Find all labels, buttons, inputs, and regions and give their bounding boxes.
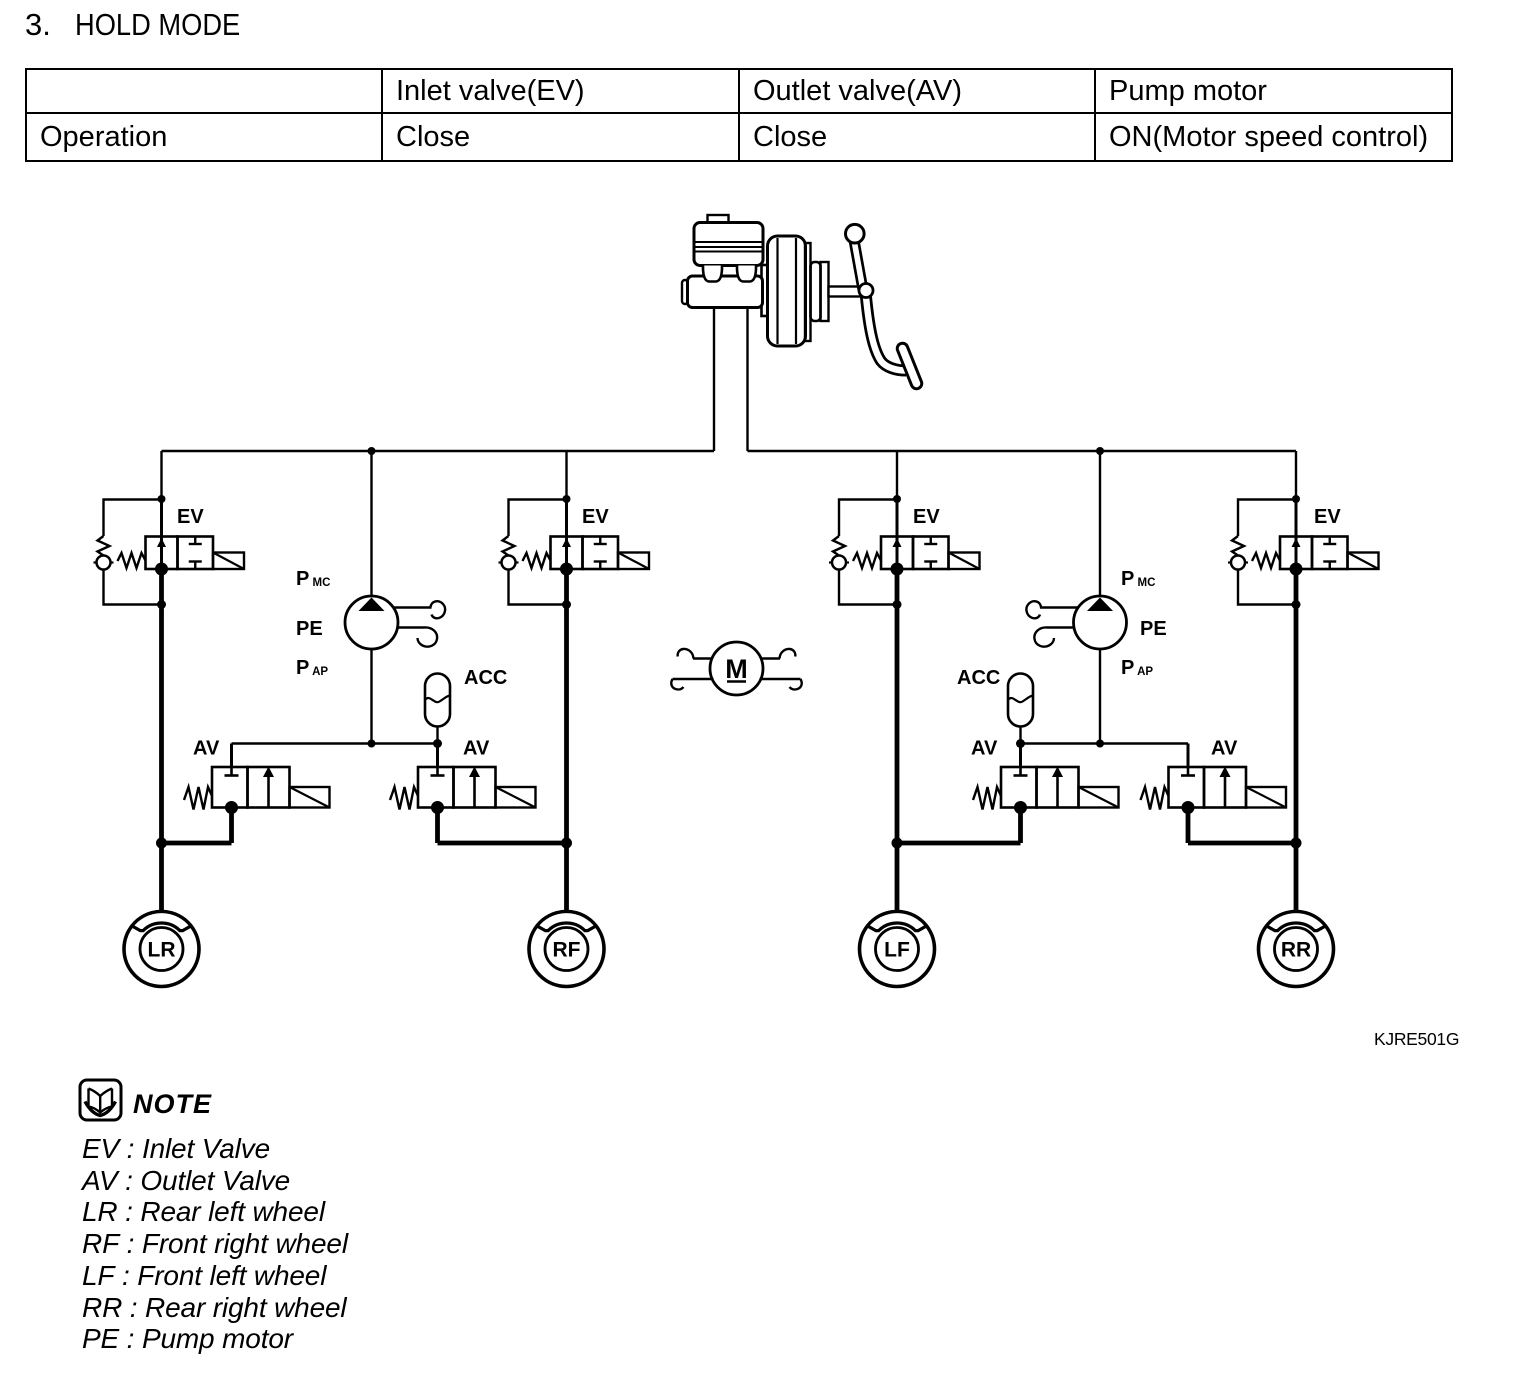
motor left coupling claw [671, 649, 713, 690]
wheel brake LF [860, 912, 935, 987]
wire: left supply bus [162, 450, 715, 453]
svg-text:ACC: ACC [957, 667, 1000, 689]
svg-text:AV: AV [193, 738, 220, 760]
wire: AV4 return branch to RR line [1188, 841, 1296, 846]
pump PE (right circuit) [1074, 447, 1127, 744]
reservoir [694, 223, 763, 266]
inlet valve EV2 (RF circuit) with check-valve bypass [499, 451, 650, 911]
node: left pump discharge junction [368, 740, 376, 748]
svg-text:AV: AV [971, 738, 998, 760]
reservoir cap [708, 215, 729, 223]
svg-text:PE: PE [1140, 618, 1167, 640]
svg-text:RF: RF [553, 939, 581, 962]
booster mounting plate [762, 265, 771, 316]
svg-text:EV: EV [913, 506, 940, 528]
wheel brake RF [529, 912, 604, 987]
wire: right supply bus [748, 450, 1297, 453]
outlet ports [703, 266, 722, 282]
svg-text:P MC: P MC [296, 568, 330, 590]
motor right coupling claw [760, 649, 802, 690]
wheel brake LR [124, 912, 199, 987]
svg-text:P AP: P AP [1121, 657, 1153, 679]
svg-text:AV: AV [1211, 738, 1238, 760]
brake pedal [854, 240, 863, 290]
push rod [829, 287, 865, 297]
svg-text:LF: LF [884, 939, 910, 962]
wire: master cylinder primary output to left bus [713, 308, 715, 452]
svg-text:PE: PE [296, 618, 323, 640]
wire: AV1 return branch to LR line [162, 841, 232, 846]
outlet valve AV3 (LF circuit) [973, 744, 1119, 844]
coupling claw of left pump [393, 601, 445, 646]
svg-text:ACC: ACC [464, 667, 507, 689]
outlet valve AV1 (LR circuit) [184, 744, 330, 844]
underline of motor label M [727, 680, 746, 683]
coupling claw of right pump [1026, 601, 1078, 646]
brake booster [768, 236, 806, 346]
wire: AV2 return branch to RF line [438, 841, 567, 846]
svg-text:P AP: P AP [296, 657, 328, 679]
pump PE (left circuit) [345, 447, 398, 744]
outlet valve AV2 (RF circuit) [390, 744, 536, 844]
svg-text:EV: EV [1314, 506, 1341, 528]
svg-text:EV: EV [177, 506, 204, 528]
svg-text:P MC: P MC [1121, 568, 1155, 590]
svg-text:LR: LR [148, 939, 176, 962]
svg-text:EV: EV [582, 506, 609, 528]
svg-text:KJRE501G: KJRE501G [1374, 1029, 1459, 1049]
wire: left outlet-valve rail [232, 742, 438, 744]
motor M body [710, 642, 763, 695]
wheel brake RR [1259, 912, 1334, 987]
svg-text:AV: AV [463, 738, 490, 760]
inlet valve EV4 (RR circuit) with check-valve bypass [1228, 451, 1379, 911]
svg-text:M: M [725, 654, 748, 684]
wire: AV3 return branch to LF line [897, 841, 1021, 846]
svg-text:RR: RR [1281, 939, 1311, 962]
accumulator ACC (left circuit) [425, 674, 450, 749]
node: right pump discharge junction [1096, 740, 1104, 748]
outlet valve AV4 (RR circuit) [1141, 744, 1287, 844]
accumulator ACC (right circuit) [1008, 674, 1033, 749]
inlet valve EV1 (LR circuit) with check-valve bypass [94, 451, 245, 911]
wire: right outlet-valve rail [1021, 742, 1189, 744]
inlet valve EV3 (LF circuit) with check-valve bypass [829, 451, 980, 911]
master cylinder body [682, 280, 688, 304]
wire: master cylinder secondary output to right bus [746, 308, 748, 452]
